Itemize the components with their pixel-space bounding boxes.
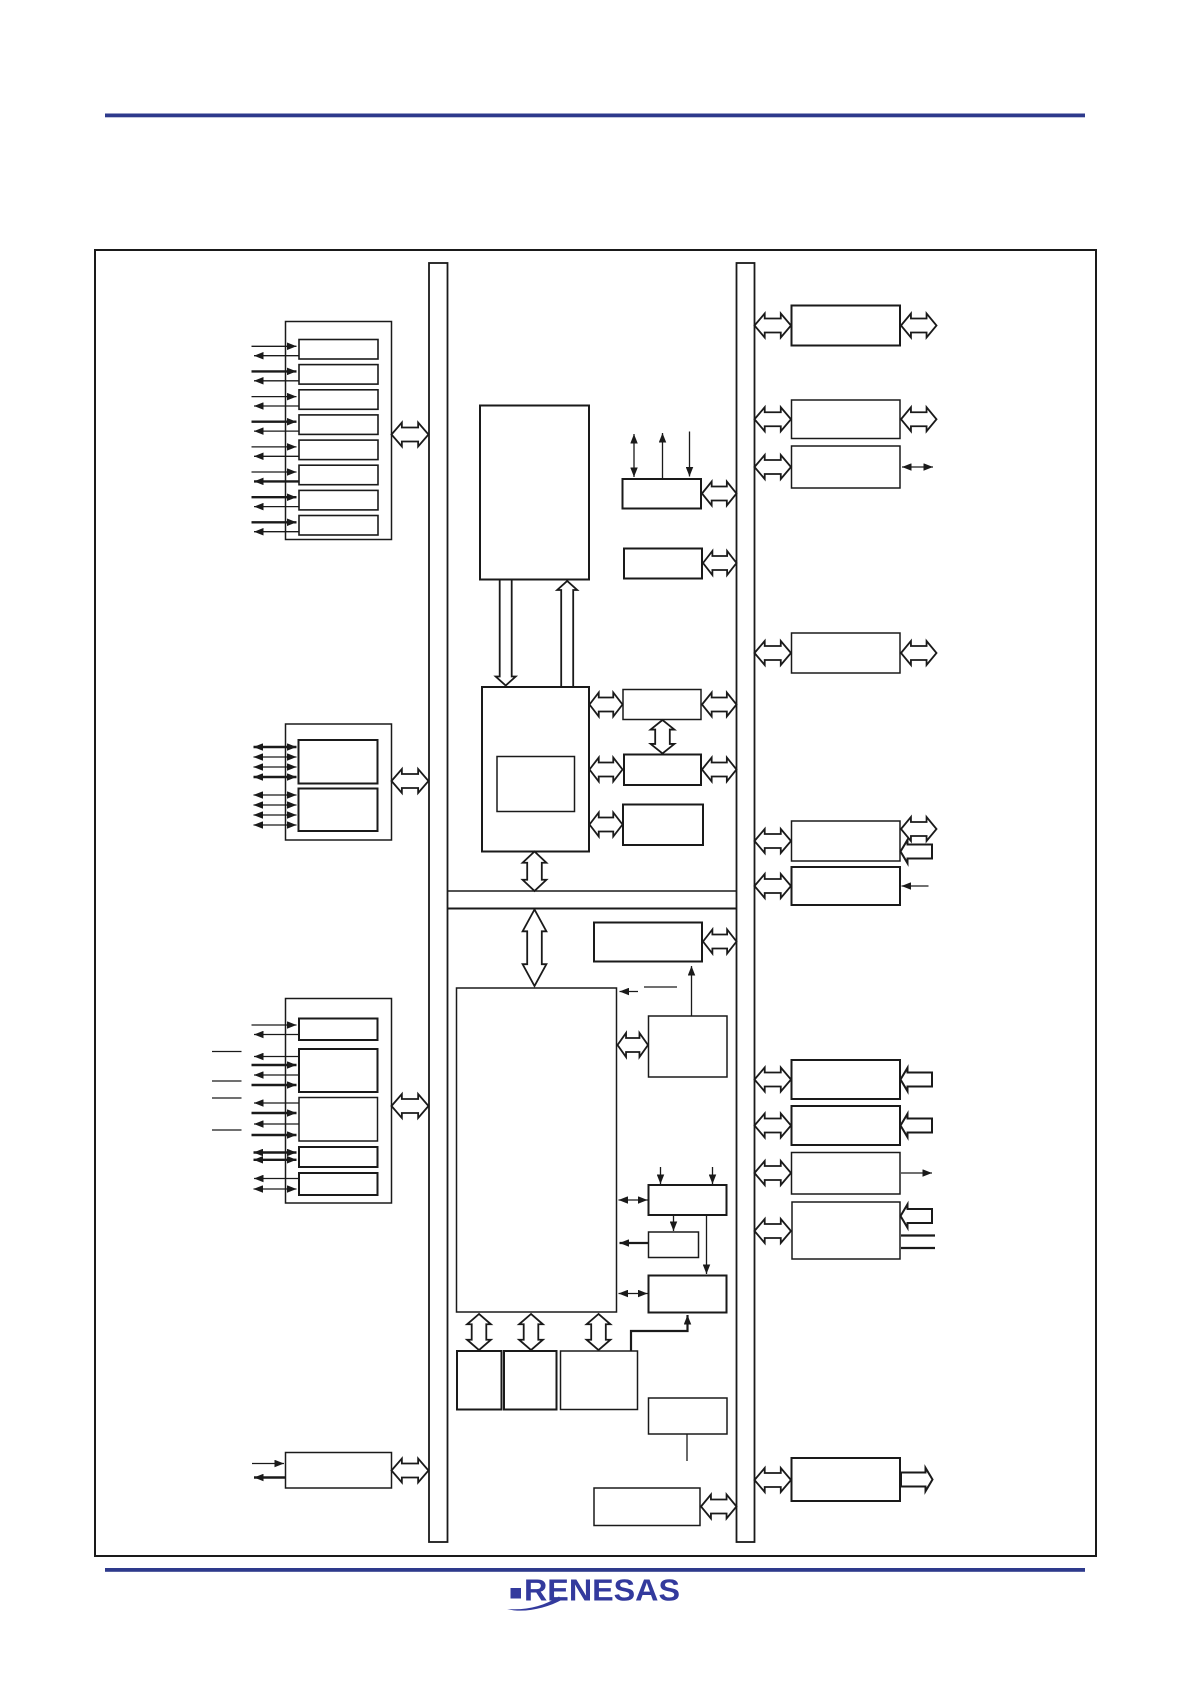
svg-text:RENESAS: RENESAS [524, 1573, 680, 1608]
